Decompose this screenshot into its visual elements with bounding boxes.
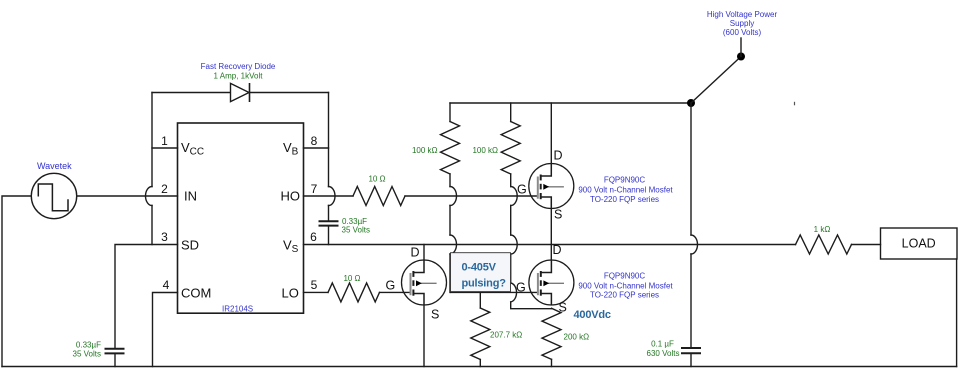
wire VCC rail x=152 (151, 93, 153, 245)
svg-text:5: 5 (311, 278, 318, 292)
resistor R5 207.7k body (471, 308, 490, 360)
svg-text:400Vdc: 400Vdc (574, 309, 611, 321)
resistor R6 200k body (542, 308, 561, 359)
svg-text:35 Volts: 35 Volts (73, 350, 101, 359)
svg-text:TO-220 FQP series: TO-220 FQP series (590, 290, 659, 299)
wire R2 to left mosfet gate (380, 291, 411, 293)
svg-text:1 kΩ: 1 kΩ (814, 225, 831, 234)
wire bottom ground rail (2, 366, 957, 368)
svg-text:IN: IN (184, 189, 197, 204)
wire VS net from pin6 to load resistor (304, 244, 796, 246)
svg-text:SD: SD (181, 238, 199, 253)
wire hop R3 over HO gate wire (450, 187, 457, 206)
resistor R3 100k body (441, 122, 460, 175)
svg-text:D: D (554, 149, 563, 163)
capacitor C3 0.1uF 630V (681, 348, 701, 353)
wire hop VB rail over HO wire (329, 187, 336, 206)
wire HO to gate resistor (304, 195, 354, 197)
load box (881, 228, 958, 259)
svg-text:Wavetek: Wavetek (37, 161, 72, 171)
capacitor C1 0.33uF bootstrap (319, 221, 339, 225)
svg-text:4: 4 (163, 278, 170, 292)
wire HV switch diagonal (691, 57, 741, 104)
svg-text:D: D (411, 246, 420, 260)
wire Q2 source to ground rail (423, 305, 425, 367)
wire node A gate wire to Q3 (451, 291, 538, 293)
stray mark (794, 102, 796, 106)
transistor Q1 upper right mosfet (529, 164, 574, 209)
diode D1 fast recovery (231, 83, 250, 102)
svg-text:COM: COM (181, 286, 211, 301)
svg-text:Fast Recovery Diode: Fast Recovery Diode (201, 62, 276, 71)
wire pin1 stub (152, 147, 178, 149)
svg-text:LOAD: LOAD (902, 237, 936, 251)
wire hop R4 over HO gate wire (511, 187, 518, 206)
svg-text:D: D (553, 243, 562, 257)
svg-text:3: 3 (161, 230, 168, 244)
node HV terminal dot (737, 53, 745, 61)
wire hop HV vertical over VS wire (691, 235, 698, 254)
svg-text:0.1 µF: 0.1 µF (651, 340, 674, 349)
resistor R4 100k top stub (510, 103, 512, 122)
svg-text:1: 1 (161, 134, 168, 148)
wire HV terminal stub (740, 38, 742, 57)
svg-text:900 Volt n-Channel Mosfet: 900 Volt n-Channel Mosfet (578, 185, 673, 194)
svg-text:10 Ω: 10 Ω (343, 274, 360, 283)
wire IN from Wavetek to pin 2 (77, 195, 178, 197)
wire Wavetek left lead down left edge (2, 196, 31, 367)
svg-text:LO: LO (282, 286, 299, 301)
svg-text:VB: VB (283, 140, 299, 158)
svg-text:IR2104S: IR2104S (222, 305, 253, 314)
wire load return to ground (956, 259, 958, 367)
svg-text:S: S (554, 208, 562, 222)
resistor R4 100k body (501, 122, 520, 175)
wire R4 lower lead with hops (511, 174, 552, 309)
svg-text:8: 8 (311, 134, 318, 148)
svg-text:FQP9N90C: FQP9N90C (604, 175, 646, 184)
transistor Q3 lower right mosfet (529, 260, 574, 305)
callout box 0-405V pulsing? (451, 253, 511, 292)
svg-text:6: 6 (310, 230, 317, 244)
wire Q1 source to VS and Q3 drain (550, 209, 552, 261)
transistor Q2 left mosfet (402, 260, 447, 305)
wire COM pin4 to ground rail (153, 293, 178, 367)
svg-text:HO: HO (281, 189, 301, 204)
signal generator Wavetek (31, 173, 76, 218)
wire left mosfet drain to VS (423, 245, 425, 261)
svg-text:10 Ω: 10 Ω (368, 175, 385, 184)
wire top bootstrap from VCC rail to diode (152, 92, 329, 94)
resistor R1 10 ohm HO gate (353, 187, 405, 206)
svg-text:(600 Volts): (600 Volts) (723, 28, 762, 37)
wire pin8 stub (304, 147, 329, 149)
wire R6 bottom to ground (551, 359, 553, 366)
wire R7 to load (852, 244, 881, 246)
wire HV rail down to filter cap (690, 103, 692, 347)
svg-text:630 Volts: 630 Volts (647, 349, 680, 358)
svg-text:Supply: Supply (730, 19, 754, 28)
resistor R2 10 ohm LO gate (328, 283, 380, 302)
wire hop R3 over VS wire (450, 235, 457, 254)
node HV junction dot (687, 99, 695, 107)
wire hop R4 over VS wire (511, 235, 518, 254)
wire R5 bottom to ground (479, 360, 481, 367)
IC U1 IR2104S body (178, 123, 304, 313)
wire C2 bottom to ground rail (114, 354, 116, 367)
svg-text:100 kΩ: 100 kΩ (412, 146, 438, 155)
svg-text:S: S (431, 308, 439, 322)
svg-text:207.7 kΩ: 207.7 kΩ (490, 331, 522, 340)
svg-text:G: G (516, 281, 526, 295)
wire 405V node down to R5 (479, 292, 481, 308)
svg-text:0.33µF: 0.33µF (76, 341, 101, 350)
wire LO stub (304, 291, 329, 293)
svg-text:35 Volts: 35 Volts (342, 226, 370, 235)
wire Q1 drain to HV rail (550, 103, 552, 164)
wire SD wire pin3 to decoupling cap (115, 245, 178, 349)
wire VB rail x=328.5 (328, 93, 330, 245)
svg-text:900 Volt n-Channel Mosfet: 900 Volt n-Channel Mosfet (578, 281, 673, 290)
wire HO resistor to upper mosfet gate (405, 195, 538, 197)
wire hop R4 over lower gate wire (511, 283, 517, 302)
capacitor C2 0.33uF VCC decoupling (105, 349, 125, 354)
wire C3 bottom to ground (690, 354, 692, 367)
svg-text:7: 7 (311, 182, 318, 196)
svg-text:1 Amp, 1kVolt: 1 Amp, 1kVolt (214, 72, 264, 81)
svg-text:200 kΩ: 200 kΩ (564, 333, 590, 342)
wire R3 lower lead with hops (449, 174, 451, 292)
svg-text:FQP9N90C: FQP9N90C (604, 271, 646, 280)
svg-text:TO-220 FQP series: TO-220 FQP series (590, 195, 659, 204)
resistor R3 100k top stub (449, 103, 451, 122)
svg-text:G: G (517, 183, 527, 197)
svg-text:100 kΩ: 100 kΩ (472, 146, 498, 155)
resistor R7 1k body (796, 235, 852, 254)
svg-text:pulsing?: pulsing? (462, 278, 507, 290)
svg-text:VCC: VCC (181, 140, 204, 158)
wire top HV rail (450, 102, 691, 104)
svg-text:VS: VS (283, 238, 299, 256)
svg-text:0-405V: 0-405V (462, 262, 497, 274)
svg-text:High Voltage Power: High Voltage Power (707, 10, 778, 19)
wire hop rail over IN wire (146, 187, 152, 206)
svg-text:G: G (386, 279, 396, 293)
svg-text:2: 2 (161, 182, 168, 196)
